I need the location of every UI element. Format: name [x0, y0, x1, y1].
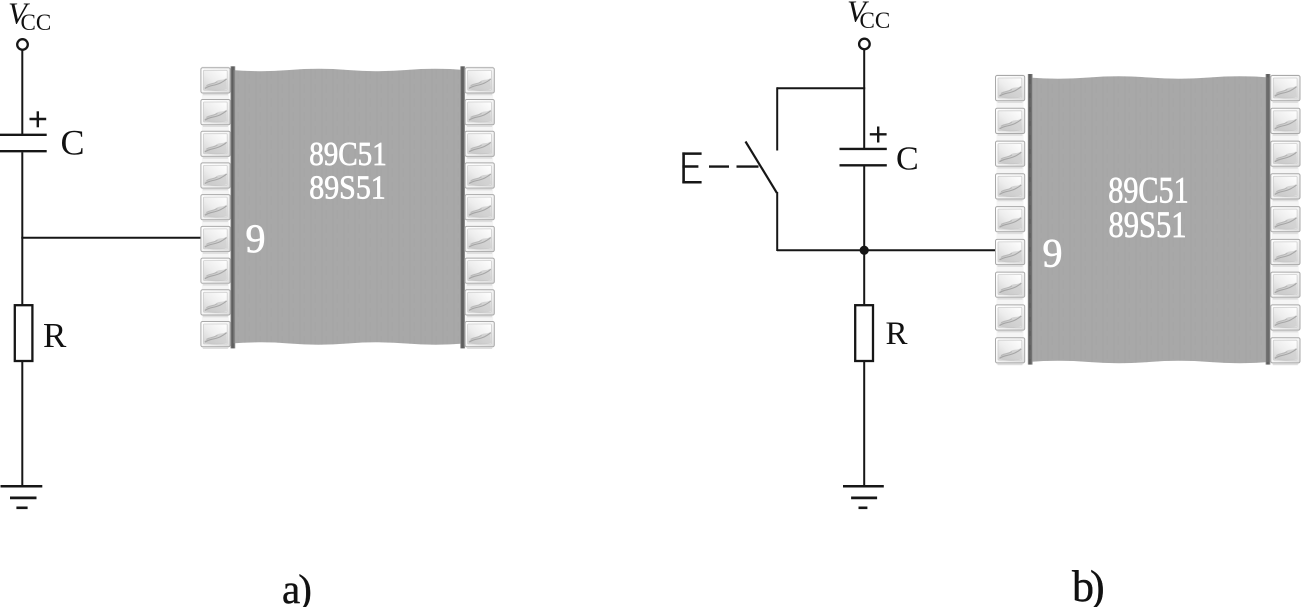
svg-text:9: 9 — [246, 216, 266, 261]
svg-text:C: C — [61, 123, 85, 163]
svg-text:89S51: 89S51 — [1109, 205, 1187, 246]
svg-text:a): a) — [282, 566, 310, 607]
svg-text:b): b) — [1072, 562, 1103, 607]
svg-text:R: R — [886, 316, 908, 352]
svg-text:89S51: 89S51 — [309, 170, 386, 207]
svg-text:89C51: 89C51 — [309, 136, 387, 173]
svg-text:CC: CC — [860, 8, 891, 33]
svg-text:CC: CC — [21, 10, 52, 35]
svg-text:C: C — [896, 140, 919, 177]
svg-text:9: 9 — [1043, 230, 1063, 275]
svg-text:R: R — [43, 316, 67, 355]
